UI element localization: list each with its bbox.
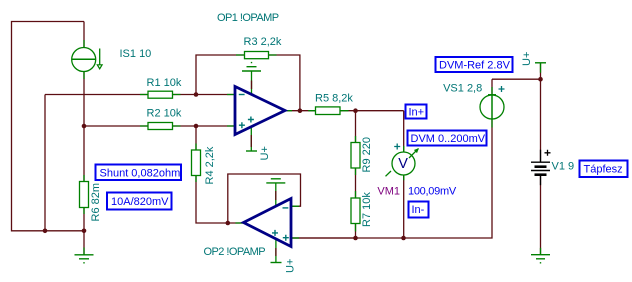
OP1 supply pin segments bbox=[250, 81, 252, 148]
box In- bbox=[409, 202, 429, 218]
wire R1 line bbox=[45, 94, 235, 96]
R3 pin stubs bbox=[236, 54, 277, 56]
op-amp U1 (OP1) bbox=[235, 87, 285, 135]
box DVM range bbox=[408, 131, 487, 146]
node U+/V1 junction bbox=[538, 77, 543, 82]
VS1 pin stubs bbox=[491, 87, 493, 128]
current source IS1 bbox=[72, 48, 102, 72]
R7 pin stubs bbox=[355, 191, 357, 232]
svg-text:VS1 2,8: VS1 2,8 bbox=[443, 83, 482, 95]
wire OP2 plus input bbox=[291, 237, 356, 239]
OP2 pin stubs bbox=[235, 206, 299, 238]
svg-text:VM1: VM1 bbox=[377, 186, 400, 198]
OP1 pin stubs bbox=[227, 95, 292, 127]
wire bottom-right rail bbox=[291, 79, 492, 238]
R9 pin stubs bbox=[355, 136, 357, 175]
wire ground stem left bbox=[83, 231, 85, 255]
svg-text:DVM-Ref 2.8V: DVM-Ref 2.8V bbox=[439, 60, 511, 72]
R5 pin stubs bbox=[308, 110, 348, 112]
node rail/R1-branch junction bbox=[43, 229, 48, 234]
voltmeter VM1 bbox=[386, 144, 420, 177]
wire OP1 output bbox=[285, 110, 404, 112]
ground (OP2 negative supply, flipped up) bbox=[266, 179, 285, 183]
U+ T-bar OP2 bbox=[271, 262, 282, 264]
U+ tap stem bbox=[540, 63, 542, 73]
voltage source VS1 bbox=[480, 86, 505, 119]
svg-text:R3 2,2k: R3 2,2k bbox=[244, 36, 282, 48]
resistor R2 bbox=[148, 123, 173, 130]
resistor R5 bbox=[316, 107, 341, 115]
node VM1/rail junction bbox=[401, 236, 406, 241]
svg-text:R6 82m: R6 82m bbox=[90, 183, 102, 222]
op-amp U2 (OP2, mirrored) bbox=[244, 199, 292, 247]
green pin stubs bbox=[84, 40, 541, 263]
box In+ bbox=[406, 105, 427, 119]
wire R9-R7 column bbox=[355, 111, 357, 238]
R4 pin stubs bbox=[195, 144, 197, 183]
ground (battery) bbox=[531, 255, 550, 263]
node R5/R9 junction bbox=[353, 108, 358, 113]
resistor R9 bbox=[351, 143, 360, 169]
svg-text:Tápfesz: Tápfesz bbox=[584, 164, 623, 176]
U+ T-bar OP1 bbox=[246, 150, 257, 152]
svg-text:OP2 !OPAMP: OP2 !OPAMP bbox=[204, 246, 266, 258]
R2 pin stubs bbox=[140, 125, 181, 127]
svg-text:R4 2,2k: R4 2,2k bbox=[204, 146, 216, 184]
wire R2 line bbox=[84, 125, 235, 127]
node rail/shunt junction bbox=[82, 229, 87, 234]
svg-text:100,09mV: 100,09mV bbox=[408, 186, 457, 198]
OP2 supply pin segments bbox=[275, 191, 277, 256]
resistor R6 bbox=[80, 182, 89, 208]
node IS1/R2 junction bbox=[82, 124, 87, 129]
R1 pin stubs bbox=[140, 94, 181, 96]
node OP1 output junction bbox=[298, 108, 303, 113]
maroon overlays on power stems bbox=[251, 81, 276, 257]
svg-text:10A/820mV: 10A/820mV bbox=[111, 196, 169, 208]
svg-text:U+: U+ bbox=[259, 146, 271, 160]
wire top-right to battery bbox=[492, 63, 541, 255]
resistor R1 bbox=[148, 91, 173, 98]
svg-text:V: V bbox=[398, 156, 408, 172]
VM1 pin stubs bbox=[403, 146, 405, 180]
box Shunt bbox=[96, 165, 182, 181]
svg-text:IS1 10: IS1 10 bbox=[120, 48, 152, 60]
svg-text:Shunt 0,082ohm: Shunt 0,082ohm bbox=[100, 167, 181, 179]
svg-text:OP1 !OPAMP: OP1 !OPAMP bbox=[217, 12, 279, 24]
resistor R3 bbox=[245, 52, 269, 59]
svg-text:R9 220: R9 220 bbox=[361, 137, 373, 172]
node R1/R3 junction bbox=[194, 92, 199, 97]
node R2/R4 junction bbox=[194, 124, 199, 129]
wire OP2 feedback loop bbox=[228, 174, 301, 223]
resistor R7 bbox=[351, 198, 360, 224]
svg-text:In+: In+ bbox=[409, 106, 425, 118]
svg-text:DVM 0..200mV: DVM 0..200mV bbox=[411, 133, 486, 145]
OP2 supply stems bbox=[275, 183, 277, 263]
svg-text:V1 9: V1 9 bbox=[552, 161, 575, 173]
ground (bottom left) bbox=[75, 255, 94, 263]
IS1 pin stubs bbox=[83, 40, 85, 79]
box 10A/820mV bbox=[107, 193, 172, 210]
OP1 supply stems bbox=[250, 71, 252, 151]
resistor R4 bbox=[192, 150, 201, 176]
node R7/rail junction bbox=[353, 236, 358, 241]
box DVM-Ref bbox=[436, 57, 513, 72]
svg-text:U+: U+ bbox=[285, 259, 297, 273]
svg-text:R7 10k: R7 10k bbox=[361, 192, 373, 227]
svg-text:R5 8,2k: R5 8,2k bbox=[315, 93, 353, 105]
wire VM1 column bbox=[403, 111, 405, 238]
svg-text:U+: U+ bbox=[521, 52, 533, 66]
node OP2 output junction bbox=[226, 221, 231, 226]
battery V1 bbox=[531, 150, 551, 186]
wire x=44.5 vertical bbox=[44, 95, 46, 231]
ground (OP1 negative supply, flipped up) bbox=[242, 63, 261, 71]
svg-text:R2 10k: R2 10k bbox=[147, 108, 182, 120]
wire R4 column bbox=[196, 126, 244, 223]
R6 pin stubs bbox=[83, 175, 85, 214]
U+ T-bar top right bbox=[535, 62, 546, 64]
wire top-left loop bbox=[12, 22, 541, 255]
ground lead stubs bbox=[84, 248, 541, 255]
svg-text:R1 10k: R1 10k bbox=[147, 77, 182, 89]
wire IS1 column bbox=[83, 22, 85, 231]
box Tapfesz bbox=[580, 161, 628, 178]
wire R3 feedback loop bbox=[196, 55, 300, 111]
svg-text:In-: In- bbox=[412, 204, 425, 216]
